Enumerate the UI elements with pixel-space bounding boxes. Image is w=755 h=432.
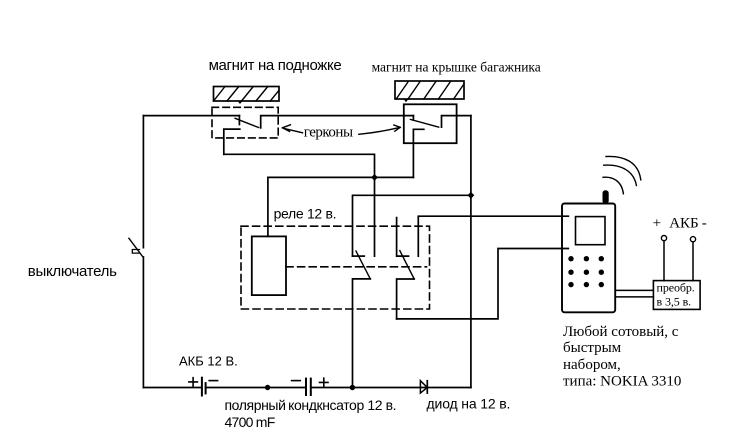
radio wave arc 3 <box>603 177 623 194</box>
phone-converter wire pair <box>615 290 653 297</box>
switch SA1 actuator mark <box>132 250 139 254</box>
switch SA1 blade <box>129 238 143 256</box>
right riser wire <box>470 116 472 388</box>
arrow to reed switch 2 <box>359 125 401 134</box>
reed switch 2 lower contact step <box>413 129 423 177</box>
radio wave arc 1 <box>606 156 641 179</box>
junction diamond A <box>371 174 378 181</box>
svg-text:Любой сотовый, с: Любой сотовый, с <box>563 324 679 340</box>
battery GB1 minus sign <box>209 380 217 382</box>
cell phone screen <box>576 217 606 245</box>
cell phone antenna <box>603 190 609 203</box>
svg-text:магнит на крышке багажника: магнит на крышке багажника <box>372 59 541 74</box>
relay coil feed wire <box>268 177 414 236</box>
svg-text:выключатель: выключатель <box>28 263 117 280</box>
svg-text:АКБ 12 В.: АКБ 12 В. <box>179 353 238 368</box>
relay coil K1 <box>252 236 286 295</box>
svg-text:полярныйкондкнсатор 12 в.: полярныйкондкнсатор 12 в. <box>225 397 397 413</box>
bottom wire to diode <box>311 387 471 389</box>
reed switch 1 right blade <box>261 116 414 128</box>
phone feed wire 2 <box>397 249 569 319</box>
diode VD1 <box>420 381 427 393</box>
battery GB1 long plate <box>201 378 203 396</box>
phone feed wire 1 <box>418 216 568 256</box>
contact K1.1 armature diagonal <box>356 251 370 279</box>
svg-text:АКБ: АКБ <box>669 215 698 231</box>
svg-text:4700 mF: 4700 mF <box>225 414 275 430</box>
converter terminal wires <box>664 241 693 281</box>
capacitor C1 minus sign <box>292 380 301 382</box>
svg-text:диод на 12 в.: диод на 12 в. <box>427 396 511 412</box>
bottom wire to capacitor <box>206 387 306 389</box>
reed switch 1 armature diagonal <box>235 118 259 127</box>
svg-text:-: - <box>702 215 707 231</box>
converter terminal + <box>661 236 666 241</box>
battery GB1 plus sign <box>189 378 198 387</box>
cell phone body <box>562 204 615 313</box>
svg-text:набором,: набором, <box>563 357 621 373</box>
reed switch 2 left blade stub <box>412 116 414 120</box>
bottom wire battery segment <box>143 387 202 389</box>
svg-text:преобр.: преобр. <box>657 281 695 295</box>
capacitor C1 plus sign <box>320 378 329 387</box>
arrow to reed switch 1 <box>282 125 302 133</box>
svg-text:в 3,5 в.: в 3,5 в. <box>657 295 692 309</box>
battery GB1 short plate <box>205 383 207 393</box>
svg-text:реле 12 в.: реле 12 в. <box>274 205 337 221</box>
reed switch 1 left blade stub <box>238 116 240 125</box>
switch wire upper vertical <box>142 116 144 248</box>
reed switch 1 lower contact step <box>224 129 240 154</box>
relay dashed enclosure <box>241 226 430 309</box>
junction dot contact1-bottom <box>350 385 355 390</box>
magnet 1 hatched block <box>214 87 280 105</box>
contact1 left feed wire <box>353 195 472 256</box>
junction dot coil-bottom <box>265 385 270 390</box>
contact K1.2 lower step <box>397 279 415 319</box>
contact K1.1 left terminal foot <box>353 255 365 257</box>
radio wave arc 2 <box>604 165 637 185</box>
relay linkage dashed line <box>286 266 427 268</box>
capacitor C1 plate 1 <box>305 379 307 395</box>
converter box <box>653 281 700 310</box>
svg-text:быстрым: быстрым <box>563 340 622 356</box>
contact K1.2 armature diagonal <box>400 251 414 279</box>
switch wire lower vertical <box>142 257 144 388</box>
capacitor C1 plate 2 <box>310 379 312 395</box>
cell phone keypad dots <box>568 256 604 287</box>
reed switch 2 solid enclosure <box>404 104 457 143</box>
svg-text:типа: NOKIA 3310: типа: NOKIA 3310 <box>563 374 681 390</box>
contact K1.1 lower step <box>353 279 371 388</box>
svg-text:магнит на подножке: магнит на подножке <box>209 57 342 74</box>
label "+ АКБ -" <box>653 215 707 231</box>
magnet 2 hatched block <box>395 81 464 102</box>
reed switch 1 dashed enclosure <box>212 107 278 138</box>
converter terminal - <box>690 237 695 242</box>
reed switch 2 right blade <box>442 116 471 128</box>
wire top-left horizontal to reed switch 1 <box>143 115 239 117</box>
junction diamond B <box>468 192 475 199</box>
reed switch 2 armature diagonal <box>410 119 438 127</box>
svg-text:+: + <box>653 215 661 231</box>
svg-text:герконы: герконы <box>304 125 353 141</box>
contact K1.2 left terminal <box>397 218 409 257</box>
reed1 step link wire <box>224 154 375 256</box>
